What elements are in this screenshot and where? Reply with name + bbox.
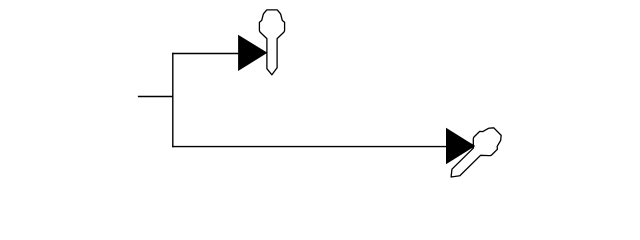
screwdriver icon (top, vertical)	[259, 10, 284, 75]
wire: top branch horizontal	[172, 53, 239, 55]
wire: vertical branch	[172, 53, 174, 148]
arrow head triangle (bottom branch)	[446, 128, 475, 164]
wire: left input stub	[138, 96, 173, 98]
triangle apex patch (bottom, apex drawn over screwdriver neck)	[472, 144, 476, 149]
arrow head triangle (top branch)	[238, 35, 267, 71]
screwdriver icon (bottom, rotated 45deg)	[442, 123, 506, 186]
wire: bottom branch horizontal	[172, 146, 446, 148]
